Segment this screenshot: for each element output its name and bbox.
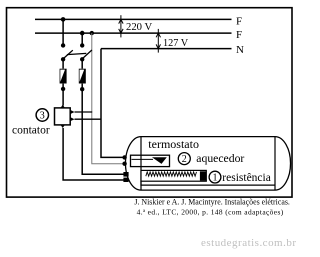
- svg-text:2: 2: [182, 154, 187, 165]
- svg-text:resistência: resistência: [222, 172, 271, 184]
- thermostat arrow head: [152, 157, 167, 164]
- svg-text:1: 1: [213, 173, 218, 184]
- thermostat arrow shaft: [132, 158, 154, 160]
- contactor terminal bottom: [61, 125, 65, 128]
- wire contactor bottom to resistance terminal: [63, 128, 124, 180]
- thermostat terminal node b: [122, 162, 126, 166]
- wire switch2 to fuse2: [81, 59, 83, 68]
- bus line N: [101, 48, 232, 50]
- wire switch1 to fuse1: [62, 59, 64, 68]
- svg-text:F: F: [236, 29, 242, 41]
- node tap on F1: [61, 17, 66, 22]
- switch pole 1: [61, 43, 73, 61]
- svg-text:4.ª ed., LTC, 2000, p. 148 (co: 4.ª ed., LTC, 2000, p. 148 (com adaptaçõ…: [137, 207, 284, 216]
- resistance end cap: [200, 171, 206, 180]
- thermostat terminal node a: [122, 155, 126, 159]
- svg-text:contator: contator: [12, 124, 50, 136]
- bus line F2: [35, 32, 232, 34]
- svg-text:J. Niskier e A. J. Macintyre.: J. Niskier e A. J. Macintyre. Instalaçõe…: [134, 197, 290, 206]
- coil wire b: [75, 118, 102, 120]
- border frame: [7, 8, 293, 197]
- dimension arrow 220V: [119, 15, 123, 37]
- svg-text:220 V: 220 V: [126, 21, 152, 33]
- wire fuse1 to contactor: [62, 84, 64, 106]
- bus line F1: [35, 18, 232, 20]
- svg-text:3: 3: [40, 111, 45, 122]
- contactor K1 box: [55, 108, 71, 125]
- svg-text:termostato: termostato: [148, 137, 199, 151]
- fuse 1: [60, 69, 67, 84]
- heater terminal block a: [123, 172, 128, 177]
- circle label 3: [36, 109, 48, 122]
- coil wire a: [75, 111, 93, 113]
- wire N down to thermostat: [101, 49, 125, 158]
- node tap on F2 (coil/thermostat feed): [90, 31, 94, 35]
- heater terminal block b: [123, 178, 128, 182]
- svg-text:estudegratis.com.br: estudegratis.com.br: [201, 237, 296, 249]
- svg-text:F: F: [236, 16, 242, 28]
- dimension arrow 127V: [156, 29, 160, 53]
- node below fuse1: [61, 87, 65, 91]
- svg-text:N: N: [236, 44, 244, 56]
- node tap on F2: [80, 31, 85, 36]
- svg-text:127 V: 127 V: [163, 37, 188, 49]
- wire fuse2 down to heater top terminal: [82, 84, 124, 175]
- circle label 2: [178, 153, 190, 166]
- wire F2 tap down to thermostat terminal: [92, 33, 125, 164]
- thermostat box: [131, 155, 170, 166]
- water heater tank: [125, 137, 290, 191]
- tank right face line: [274, 137, 276, 191]
- switch pole 2: [80, 43, 92, 61]
- resistance enclosure line: [141, 181, 275, 185]
- fuse 2: [79, 69, 86, 84]
- switch link bar: [67, 53, 86, 54]
- svg-text:aquecedor: aquecedor: [196, 152, 244, 165]
- tank left face line: [140, 137, 142, 191]
- contactor terminal top: [61, 105, 65, 108]
- resistance element box: [141, 170, 206, 181]
- contactor coil terminal a: [70, 110, 74, 114]
- circle label 1: [209, 171, 221, 183]
- resistance zigzag: [146, 172, 197, 176]
- wire F2 tap down to switch: [81, 33, 83, 45]
- contactor coil terminal b: [70, 117, 74, 121]
- wire F1 tap down to switch: [62, 19, 64, 45]
- node below fuse2: [80, 87, 84, 91]
